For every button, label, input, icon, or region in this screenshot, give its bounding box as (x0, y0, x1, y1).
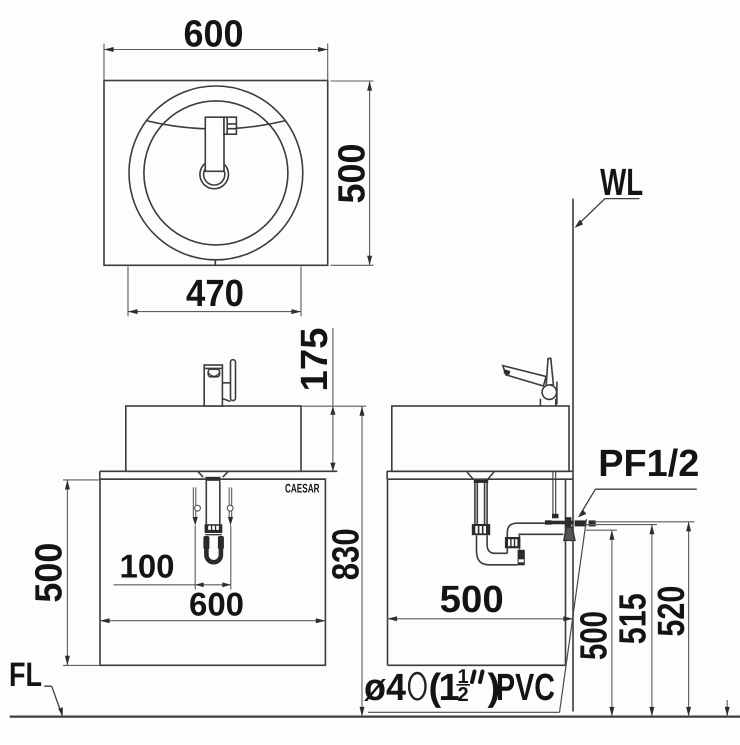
svg-text:175: 175 (294, 328, 336, 392)
svg-text:500: 500 (332, 144, 374, 204)
svg-text:FL: FL (9, 656, 42, 694)
svg-text:500: 500 (440, 579, 504, 621)
svg-text:100: 100 (120, 548, 175, 585)
svg-text:500: 500 (574, 611, 616, 660)
svg-text:600: 600 (184, 14, 244, 56)
svg-text:WL: WL (600, 162, 643, 204)
svg-text:CAESAR: CAESAR (285, 482, 320, 496)
svg-text:520: 520 (651, 586, 693, 637)
svg-text:ø4: ø4 (364, 667, 406, 709)
svg-text:2: 2 (457, 684, 468, 706)
svg-text:600: 600 (189, 585, 244, 622)
svg-text:PF1/2: PF1/2 (598, 443, 699, 485)
svg-text:470: 470 (186, 273, 244, 315)
svg-text:830: 830 (326, 528, 368, 580)
svg-text:515: 515 (612, 593, 654, 644)
svg-text:500: 500 (29, 543, 71, 603)
svg-text:PVC: PVC (496, 667, 555, 709)
